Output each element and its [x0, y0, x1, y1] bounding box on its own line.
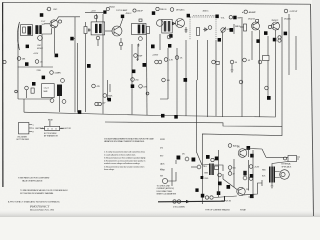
wire riser heavy to output	[224, 196, 226, 201]
circled at 266,88	[265, 86, 269, 90]
wire riser x253 audio	[252, 150, 254, 197]
heavy current line	[158, 200, 225, 203]
wire Q9 collector to T5	[244, 180, 263, 195]
speaker column text	[160, 139, 166, 178]
circled pair at 156-160,62	[152, 55, 162, 64]
callout 1	[40, 13, 44, 17]
tone box at 216,61	[212, 60, 220, 64]
circled audio takeoff	[228, 144, 239, 148]
svg-text:1ST I.F. AMP: 1ST I.F. AMP	[116, 9, 128, 12]
lead diagram AF transistor	[36, 118, 72, 137]
wire bottom corner x253	[249, 196, 254, 198]
svg-text:TYPE OF CURRENT READING: TYPE OF CURRENT READING	[205, 209, 230, 212]
wire riser x242	[241, 17, 243, 117]
wire under Q9	[214, 196, 237, 198]
svg-text:residual or more voltage and h: residual or more voltage and hardware re…	[104, 162, 141, 165]
svg-text:VARIATION IN NORMAL TRANSISTOR: VARIATION IN NORMAL TRANSISTOR READINGS.	[104, 140, 145, 143]
wire riser x139	[137, 44, 139, 60]
callout 18	[184, 78, 188, 82]
svg-text:★ SEE PARTS LIST FOR COMPONENT: ★ SEE PARTS LIST FOR COMPONENT	[18, 177, 50, 180]
wire riser x222	[222, 32, 224, 117]
label AF amp	[242, 10, 257, 20]
loop antenna inner lead	[18, 22, 19, 50]
gang coil	[27, 26, 31, 35]
coupling cap C20	[234, 24, 241, 34]
input transistor Q7 on frame	[162, 178, 167, 183]
circled lower left riser	[249, 177, 253, 181]
capacitor C5	[88, 29, 91, 32]
wire x77.5 riser	[77, 43, 79, 112]
current line arrow	[186, 200, 190, 203]
wire riser x177	[176, 48, 178, 116]
resistance note	[20, 189, 68, 195]
bus riser x283	[281, 17, 283, 126]
callout 29	[227, 185, 231, 189]
wire conv emitter down	[53, 28, 55, 54]
IF transformer T2	[132, 19, 147, 46]
osc coil L2	[35, 25, 41, 34]
callout on riser196	[195, 188, 198, 192]
svg-text:EMITTER: EMITTER	[36, 128, 44, 130]
svg-text:SPKR: SPKR	[160, 139, 165, 141]
circled 232,62 with ground	[230, 60, 238, 72]
transistor Q4 AF amp	[252, 20, 260, 30]
svg-text:COLLECTOR: COLLECTOR	[60, 128, 71, 130]
circled bias R2	[228, 172, 235, 176]
wire osc feedback	[42, 28, 52, 34]
callout 25	[267, 96, 271, 100]
svg-text:2N1274: 2N1274	[248, 19, 256, 21]
circled pair at 91,101	[95, 102, 106, 105]
callout 22a	[256, 39, 260, 43]
wire riser x207	[207, 40, 209, 117]
osc alignment symbol A	[47, 7, 58, 11]
wire riser x252	[251, 31, 253, 60]
output transformer T5	[262, 167, 275, 183]
svg-text:AF TRANSISTOR: AF TRANSISTOR	[44, 134, 58, 137]
transistor Q2 1st IF	[105, 26, 122, 36]
interstage transformer T4	[204, 164, 219, 176]
lead diagram IF transistor	[17, 123, 35, 142]
callout above Q2	[121, 15, 124, 19]
svg-text:470: 470	[160, 148, 163, 150]
phone jack circled arrow	[284, 157, 287, 160]
svg-text:4. Resistant terms as measur: 4. Resistant terms as measured values ta…	[104, 160, 145, 163]
svg-text:2N412: 2N412	[109, 6, 116, 8]
wire diode to Q3	[171, 22, 177, 24]
callout 11	[151, 45, 155, 49]
svg-text:DISCONNECT AND: DISCONNECT AND	[157, 190, 173, 193]
circled +8.4v	[249, 165, 260, 169]
svg-text:5. Measurements to make do n: 5. Measurements to make do no taken sens…	[104, 166, 144, 169]
svg-text:4 VDC (50MW): 4 VDC (50MW)	[173, 207, 185, 209]
driver transistor Q6	[191, 165, 201, 169]
supply line	[85, 11, 103, 13]
wire riser x110	[109, 84, 111, 92]
callout 8 top	[103, 10, 106, 13]
callout 16	[215, 15, 218, 19]
callout 30	[218, 182, 222, 186]
wire riser x248 audio	[248, 160, 250, 191]
circled at 135.5,55.5 + value	[134, 54, 143, 61]
svg-text:2ND IF: 2ND IF	[137, 11, 144, 13]
svg-text:+0.5V: +0.5V	[33, 53, 39, 55]
wire riser x218 audio	[218, 150, 220, 197]
circled at 26.5,88	[25, 86, 29, 98]
label 2nd IF over T2	[133, 9, 144, 13]
resistor R9	[197, 28, 200, 36]
wire Q2 collector up	[97, 14, 123, 27]
circled at 93,86	[92, 84, 101, 88]
speaker SP1	[275, 170, 289, 180]
wire T4 secondary top	[214, 165, 223, 179]
transistor Q1 converter	[50, 20, 62, 28]
callout 10	[169, 34, 172, 38]
wire riser x186	[185, 40, 187, 116]
resistor R3	[84, 22, 87, 38]
callout 4a	[32, 82, 36, 86]
detector dashed box	[190, 17, 216, 40]
circled base node Q5	[268, 25, 271, 28]
outer bottom bus line	[105, 122, 282, 126]
tuning gang box	[21, 25, 33, 36]
output transistor Q9	[237, 187, 249, 195]
circled at 244,60	[243, 58, 251, 62]
wire riser x85	[85, 38, 87, 112]
heavy-line note text	[157, 186, 177, 196]
svg-text:AF AMP: AF AMP	[249, 11, 257, 14]
wire riser x107	[106, 80, 108, 100]
terminal circle 16,91.5	[15, 90, 18, 93]
heavy line label	[173, 207, 230, 212]
svg-text:455KC: 455KC	[37, 48, 43, 50]
wire riser x293	[288, 14, 290, 75]
wire riser x299	[295, 36, 297, 70]
svg-text:455KC: 455KC	[203, 11, 209, 13]
speaker wire labels	[160, 169, 163, 171]
svg-text:NOT SHOWN ON SCHEMATIC DIAGRAM: NOT SHOWN ON SCHEMATIC DIAGRAM.	[20, 192, 54, 195]
svg-text:750K: 750K	[108, 96, 113, 98]
circled at 146,88	[139, 85, 149, 95]
svg-text:(Measured at Radio & TV, Inc.: (Measured at Radio & TV, Inc. 1959)	[30, 209, 54, 212]
dashed agc line	[193, 15, 216, 17]
circled R at 51.5,72.5	[50, 71, 62, 75]
bottom scan gradient band	[0, 0, 1, 1]
callout 7a	[161, 114, 165, 118]
callout 4	[42, 76, 46, 80]
callout 6	[70, 37, 73, 41]
circled on left riser	[218, 173, 222, 177]
label audio output	[284, 9, 298, 20]
volume control R12	[221, 28, 232, 33]
wire riser x160	[159, 34, 161, 50]
svg-text:1. To verify measurements ta: 1. To verify measurements taken with soc…	[104, 151, 145, 154]
IF transformer T1	[91, 15, 105, 46]
circled 241,82	[239, 80, 243, 84]
callout right of Q10	[250, 154, 254, 158]
svg-text:DET-AGC: DET-AGC	[176, 9, 185, 12]
wire audio input	[168, 160, 177, 181]
earphone coil	[57, 85, 62, 97]
callout 14	[143, 63, 147, 67]
parts list note	[18, 177, 50, 183]
wire x75 riser	[74, 17, 75, 113]
svg-text:+8.4V: +8.4V	[254, 167, 260, 169]
circled at 52,100.5	[50, 99, 54, 103]
callout 9a	[132, 70, 136, 74]
wire Q10 collector to T5	[245, 149, 288, 167]
callout 2a	[26, 45, 29, 49]
svg-text:3. Measured values are free: 3. Measured values are free condition to…	[104, 157, 146, 160]
upper output transistor Q10	[237, 147, 247, 158]
circled near T4	[211, 158, 214, 161]
wire Q8 to Q9	[223, 179, 237, 190]
callout 32	[250, 194, 254, 198]
circled c14	[119, 38, 123, 50]
callout 5	[55, 54, 59, 58]
svg-text:EXTERNAL: EXTERNAL	[282, 163, 291, 166]
svg-text:CURRENT (APPROX): CURRENT (APPROX)	[157, 187, 175, 190]
svg-text:OSC: OSC	[37, 45, 42, 47]
electrolytic C30	[243, 171, 247, 180]
resistor R6	[147, 27, 150, 34]
label osc 455	[37, 45, 43, 50]
wire riser x268	[267, 36, 269, 96]
wire avc line	[18, 66, 53, 68]
callout 26	[247, 146, 251, 150]
circled at 163,80	[162, 78, 171, 82]
IF transformer T3	[157, 19, 173, 33]
wire T5 bottom to ground	[271, 183, 273, 185]
svg-text:VALUE OR APPLICATION: VALUE OR APPLICATION	[22, 180, 43, 183]
wire riser x275	[275, 30, 277, 117]
wire conv collector	[57, 17, 81, 20]
capacitor C17	[185, 27, 188, 33]
wire riser x197	[197, 40, 199, 80]
svg-text:2. Loads will points on thes: 2. Loads will points on these another cl…	[104, 154, 136, 157]
callout 31	[201, 194, 205, 198]
svg-text:2ND I.F.: 2ND I.F.	[160, 9, 167, 11]
loop antenna L1	[17, 22, 19, 50]
svg-text:455KC: 455KC	[126, 13, 132, 15]
svg-text:OUTPUT: OUTPUT	[290, 11, 299, 13]
wire riser x168	[160, 48, 168, 99]
right page margin	[312, 0, 320, 217]
label 1st IF amp	[106, 6, 132, 15]
callout 27	[177, 156, 181, 160]
callout 10b	[168, 44, 171, 48]
transistor Q3 2nd IF	[176, 19, 185, 28]
circled right of T2	[156, 7, 159, 10]
svg-text:.02MFD: .02MFD	[54, 73, 61, 75]
svg-text:SPKR JACK: SPKR JACK	[282, 165, 292, 168]
ground symbol	[271, 185, 274, 189]
callout right column mid	[250, 174, 254, 178]
svg-text:INSERT 0-10 MA METER: INSERT 0-10 MA METER	[157, 193, 177, 196]
svg-text:2N1415: 2N1415	[284, 19, 292, 21]
transistor Q5 driver	[272, 20, 280, 30]
svg-text:TO CHECK LINE: TO CHECK LINE	[157, 186, 171, 188]
circled at 104.8,95.5	[103, 94, 113, 98]
base resistor network	[240, 24, 247, 31]
callout 26A	[206, 155, 210, 159]
circled bias R	[228, 166, 236, 170]
callout 17	[218, 38, 221, 42]
diode M1	[203, 26, 212, 32]
svg-text:SW: SW	[160, 176, 163, 178]
callout 7b	[174, 115, 178, 119]
numbered list	[104, 151, 146, 172]
svg-text:270K: 270K	[37, 70, 42, 72]
wire audio long riser	[197, 80, 203, 165]
wire riser x259	[259, 30, 261, 117]
svg-text:★: ★	[242, 11, 244, 14]
callout 21	[264, 31, 268, 35]
wire risers left group	[18, 34, 60, 112]
wire riser x234 between bias	[230, 159, 234, 187]
callout 27A	[215, 157, 219, 161]
ext speaker jack box	[282, 156, 301, 169]
svg-text:PHOTOFACT: PHOTOFACT	[29, 205, 50, 209]
trimmer C1A	[23, 27, 26, 33]
svg-text:OSC: OSC	[53, 9, 58, 11]
svg-text:TO FIND RESISTANCE VALUES COLO: TO FIND RESISTANCE VALUES COLOR CODED AN…	[20, 189, 68, 192]
value labels top	[33, 53, 39, 55]
callout 15	[187, 14, 190, 18]
circled at 177,58	[175, 56, 183, 60]
callout 12	[131, 84, 135, 88]
circled R at 19,58.5	[17, 57, 26, 61]
callout 13	[152, 11, 155, 15]
svg-text:1.5-2.2: 1.5-2.2	[44, 88, 49, 90]
circled at 37,61.5	[35, 60, 43, 64]
schematic left border	[2, 2, 4, 187]
callout 19	[230, 28, 234, 32]
wire riser x147	[146, 34, 149, 115]
circled at 62.5,80.5	[61, 79, 65, 83]
callout 22	[273, 38, 277, 42]
schematic top border	[3, 2, 311, 4]
callout 9	[108, 98, 112, 102]
circled caps stacked	[278, 36, 281, 43]
svg-text:BOTTOM VIEW: BOTTOM VIEW	[17, 139, 30, 141]
thermistor circles	[205, 196, 213, 199]
callout 28	[192, 158, 196, 162]
schematic right border	[311, 4, 314, 216]
resistor block 31,88	[31, 88, 34, 93]
svg-text:+0.85V: +0.85V	[152, 55, 159, 57]
antenna terminal	[3, 60, 6, 63]
box at 263,56	[258, 56, 269, 64]
wire conv base	[44, 23, 50, 25]
wire riser x216	[215, 40, 217, 117]
circled at 132.5,79.5	[131, 78, 140, 82]
circled meter B	[182, 154, 189, 161]
callout 33	[217, 191, 221, 195]
circled at 166,60	[164, 58, 173, 62]
label 2nd IF amp	[160, 8, 185, 12]
B- bus line lower left	[24, 112, 275, 117]
earphone jack box	[42, 84, 55, 98]
circled at 64,101.5	[62, 100, 66, 104]
circled pair right	[221, 16, 242, 20]
wire Q6 to T4	[202, 164, 209, 167]
callout 3	[25, 62, 29, 66]
audio section frame	[172, 126, 282, 204]
svg-text:5MFD: 5MFD	[235, 26, 241, 28]
svg-text:A PHOTOFACT STANDARD NOTATION: A PHOTOFACT STANDARD NOTATION SCHEMATIC	[8, 201, 60, 204]
callout 23	[284, 32, 288, 36]
callout 2	[87, 64, 91, 68]
note paragraph	[104, 138, 155, 144]
wire riser x132	[131, 44, 133, 114]
callout 7 on bus	[78, 110, 82, 114]
svg-text:those voltage.: those voltage.	[104, 168, 115, 171]
wire riser x103	[102, 14, 104, 114]
circled below T3	[167, 35, 171, 39]
svg-text:2N2072: 2N2072	[272, 20, 280, 22]
svg-text:9V BAT: 9V BAT	[240, 209, 247, 212]
small callout at 201,176	[201, 176, 209, 180]
circled readings on heavy line	[173, 200, 181, 203]
circled below osc coil	[38, 36, 43, 41]
svg-text:VOLTAGE MEASUREMENTS IN EACH B: VOLTAGE MEASUREMENTS IN EACH BELOWN IN T…	[104, 138, 155, 141]
